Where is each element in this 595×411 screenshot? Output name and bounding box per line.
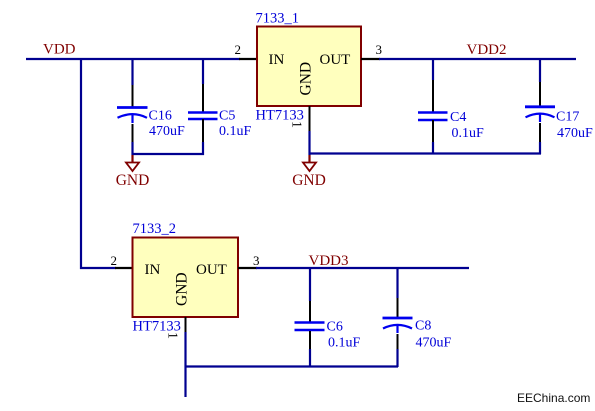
svg-text:IN: IN [269,52,285,68]
pin 3 stub U1 [361,58,380,60]
svg-text:0.1uF: 0.1uF [219,124,252,139]
svg-text:C4: C4 [450,110,466,125]
svg-text:C6: C6 [327,320,343,335]
pin stub C6 bottom [309,331,311,349]
wire ground rail lower [185,365,399,367]
svg-text:IN: IN [145,262,161,278]
wire C17 branch upper [539,58,541,82]
wire U1 ground drop [308,131,310,155]
pin 2 stub U1 [239,58,257,60]
wire C16 branch upper [131,58,133,85]
pin stub C5 top [202,84,204,112]
capacitor C6 symbol [295,323,325,331]
wire C4 to ground rail [432,142,434,154]
wire C6 to ground rail [309,349,311,367]
pin stub C17 top [539,82,541,106]
svg-text:2: 2 [235,42,242,57]
pin 3 stub U2 [238,267,257,269]
ground GND symbol left [116,155,150,189]
svg-text:OUT: OUT [196,262,227,278]
svg-text:1: 1 [165,332,180,339]
wire ground rail C16-C5 [132,153,205,155]
pin stub C6 top [309,301,311,322]
op-amp U2 HT7133 regulator body [133,221,239,339]
svg-text:VDD2: VDD2 [467,42,507,58]
wire ground rail right (VDD2 side) [309,152,542,154]
svg-text:1: 1 [289,121,304,128]
pin stub C4 top [432,80,434,112]
capacitor C5 symbol [188,113,218,120]
wire C16 to ground rail [131,142,133,155]
svg-text:0.1uF: 0.1uF [328,336,361,351]
wire VDD main horizontal [26,58,240,60]
pin stub C17 bottom [539,123,541,142]
pin GND stub U1 [309,106,311,131]
capacitor C8 polarized symbol [383,318,413,333]
wire vertical VDD drop to lower circuit [81,58,116,268]
svg-text:C16: C16 [149,109,172,124]
wire VDD2 horizontal [379,58,576,60]
svg-text:C8: C8 [415,319,431,334]
wire C8 branch upper [396,268,398,298]
capacitor C17 polarized symbol [525,107,555,122]
svg-text:OUT: OUT [320,52,351,68]
pin stub C8 bottom [397,334,399,349]
wire U2 ground drop [184,332,186,397]
svg-text:GND: GND [174,272,191,306]
pin stub C16 bottom [132,124,134,142]
op-amp U1 HT7133 regulator body [256,11,362,129]
pin stub C4 bottom [432,120,434,142]
svg-text:470uF: 470uF [557,126,593,141]
svg-text:3: 3 [253,253,260,268]
ground GND symbol center [292,155,326,189]
pin GND stub U2 [185,317,187,332]
svg-text:7133_2: 7133_2 [133,221,177,237]
svg-text:GND: GND [116,172,150,189]
svg-text:0.1uF: 0.1uF [452,126,485,141]
svg-text:GND: GND [298,62,315,96]
svg-text:3: 3 [376,42,383,57]
pin 2 stub U2 [115,267,133,269]
wire C5 to ground rail [202,142,204,155]
wire C5 branch upper [202,58,204,84]
svg-text:C5: C5 [219,109,235,124]
wire C6 branch upper [309,268,311,301]
wire C17 to ground rail [539,142,541,154]
wire VDD3 horizontal [256,267,469,269]
svg-text:VDD3: VDD3 [309,253,349,269]
svg-text:GND: GND [292,172,326,189]
capacitor C4 symbol [418,113,448,121]
svg-text:2: 2 [111,253,118,268]
svg-text:7133_1: 7133_1 [256,11,300,27]
pin stub C5 bottom [202,119,204,142]
svg-text:EEChina.com: EEChina.com [517,391,590,405]
svg-text:C17: C17 [556,110,579,125]
svg-text:470uF: 470uF [416,336,452,351]
pin stub C8 top [397,298,399,317]
pin stub C16 top [132,85,134,107]
capacitor C16 polarized symbol [117,108,148,124]
svg-text:470uF: 470uF [149,124,185,139]
svg-text:VDD: VDD [43,42,76,58]
wire C4 branch upper [432,58,434,80]
wire C8 to ground rail [396,349,398,367]
